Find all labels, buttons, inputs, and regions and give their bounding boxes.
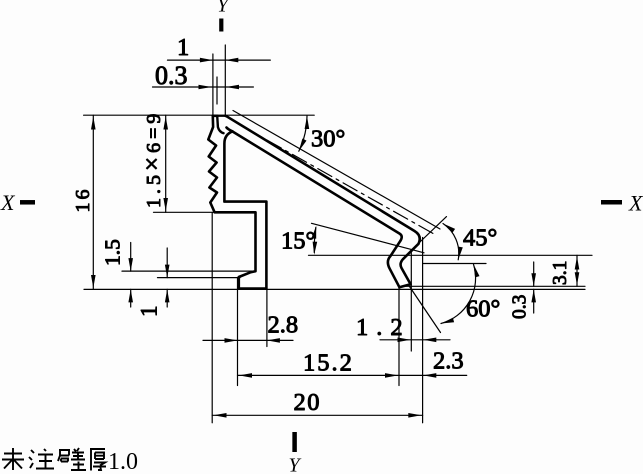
svg-text:30°: 30° [311, 126, 345, 153]
svg-text:1.5: 1.5 [101, 239, 125, 266]
15 deg arc with arrows [314, 228, 316, 253]
glyph bi [58, 448, 86, 470]
dimension 2.8 line [203, 339, 293, 341]
dimension 1.5 (lower-left) lines and arrows [130, 243, 132, 308]
extension line x=212.9 (blade left) [212, 54, 214, 115]
dimension 1.5x6=9 line [165, 115, 167, 212]
dimension 20 arrows [214, 413, 422, 418]
svg-text:3.1: 3.1 [550, 261, 571, 285]
glyph hou [90, 449, 106, 471]
svg-text:16: 16 [72, 187, 94, 213]
extension line x=266.9 (2.8 right) [266, 290, 268, 347]
60 deg arc with arrows [441, 264, 476, 323]
svg-text:15°: 15° [281, 228, 315, 255]
Y axis bottom tick [292, 432, 297, 452]
svg-text:0.3: 0.3 [155, 61, 188, 90]
dimension 3.1 line [576, 255, 578, 286]
svg-text:Y: Y [289, 455, 302, 474]
X axis left mark [20, 200, 35, 205]
svg-text:60°: 60° [466, 296, 500, 323]
svg-text:1.2: 1.2 [356, 314, 411, 341]
dimension 1 (lower-left) lines and arrows [166, 248, 168, 307]
dimension 2.3 arrow [423, 373, 436, 378]
svg-text:X: X [628, 191, 643, 216]
dimension 3.1 arrows [575, 257, 580, 286]
dimension 0.3 (right) line and arrows [533, 262, 535, 313]
svg-text:20: 20 [294, 389, 322, 416]
svg-text:15.2: 15.2 [303, 350, 354, 377]
dimension 1 (top) arrows [200, 58, 238, 63]
tip bottom extension line y=286.3 [403, 285, 585, 287]
bottom extension line y=289.4 [84, 288, 585, 290]
extension line x=237.5 (2.8/15.2 left) [237, 278, 239, 386]
extension line y=255.3 (15 deg horizontal leg / 3.1 top) [309, 254, 593, 256]
svg-text:X: X [0, 190, 16, 215]
dimension 0.3 (top) line [153, 86, 254, 88]
note text: wei zhu bi hou 1.0 (hand-drawn CJK glyphs) [2, 448, 106, 471]
glyph wei [2, 448, 24, 470]
svg-text:1.0: 1.0 [108, 449, 138, 474]
extension line x=216.9 (blade right) [216, 77, 218, 104]
extension line x=422.6 (20/2.3 right) [422, 238, 424, 423]
dimension 15.2 arrows [239, 373, 398, 378]
extension line y=277.6 (foot diagonal) [158, 277, 241, 279]
svg-text:1: 1 [177, 34, 189, 61]
dimension 1.2 line [380, 339, 450, 341]
dimension 1.2 arrows [398, 338, 437, 343]
extension line y=212.3 (serration bottom) [154, 211, 215, 213]
extension line x=411.3 (tip right) [410, 253, 412, 352]
45 deg leg line [411, 217, 447, 251]
dash-dot reference line parallel to roof [242, 126, 434, 234]
dimension 16 arrows [91, 117, 96, 289]
dimension 1 (top) line [168, 59, 271, 61]
profile left body outline (serrated wall, lower block, foot notch) [208, 116, 266, 289]
extension line x=212.2 (20 left) [211, 213, 213, 423]
extension line y=271.1 (foot notch top) [122, 270, 255, 272]
profile groove between blade and roof [217, 116, 223, 133]
extension line x=225.3 (wall right) [224, 45, 226, 115]
svg-text:0.3: 0.3 [510, 295, 531, 319]
dimension 16 line [92, 115, 94, 289]
15 deg sloped leg [312, 223, 425, 253]
extension line x=399 (tip left) [398, 288, 400, 386]
60 deg horizontal reference line y=263.5 [423, 263, 486, 265]
60 deg leg line [410, 287, 441, 333]
30 deg arc with arrows [299, 116, 307, 151]
svg-text:2.3: 2.3 [433, 348, 464, 375]
dimension 15.2 / 2.3 shared line [238, 374, 467, 376]
svg-text:1.5×6=9: 1.5×6=9 [139, 110, 166, 208]
svg-text:2.8: 2.8 [268, 312, 299, 339]
Y axis top tick [219, 19, 223, 32]
svg-text:1: 1 [137, 306, 162, 318]
dimension 1.5x6=9 arrows [163, 117, 168, 212]
profile roof wall with Z-fold tip (outer slope, fold, end cap, inner slope) [225, 116, 419, 287]
45 deg arc with arrows [443, 224, 459, 260]
svg-text:Y: Y [217, 0, 230, 17]
top cap of wall tip [213, 115, 226, 117]
dimension 0.3 (top) arrows [199, 85, 240, 90]
dimension 20 line [212, 414, 422, 416]
top horizontal extension line y=115 [84, 114, 315, 116]
X axis right mark [601, 200, 622, 205]
30 deg angle leg (thin solid line from tip) [233, 111, 440, 230]
glyph zhu [29, 449, 54, 469]
svg-text:45°: 45° [463, 225, 497, 252]
dimension 2.8 arrows [225, 338, 280, 343]
